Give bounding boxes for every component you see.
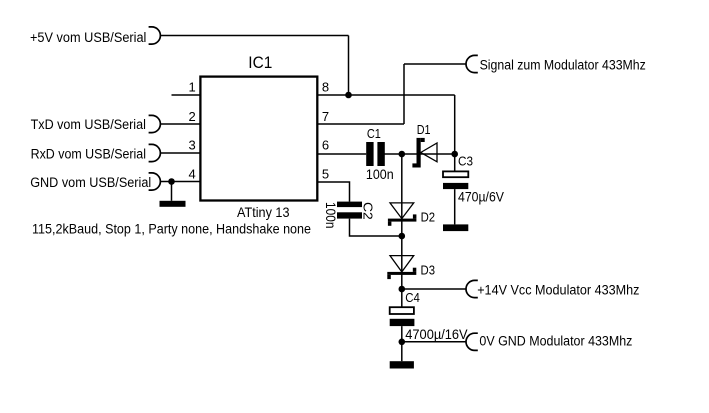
svg-text:C4: C4 [405, 290, 420, 305]
wire node C down to C4 [401, 289, 403, 307]
op IC1 box [200, 77, 317, 201]
wire vertical pin8 net down to node A [454, 95, 456, 154]
svg-text:GND vom USB/Serial: GND vom USB/Serial [30, 175, 151, 190]
wire C4 to ground [401, 326, 403, 361]
capacitor C1 [366, 142, 385, 166]
svg-text:Signal zum Modulator 433Mhz: Signal zum Modulator 433Mhz [480, 57, 646, 72]
svg-text:3: 3 [188, 138, 195, 153]
svg-text:RxD vom USB/Serial: RxD vom USB/Serial [31, 146, 146, 161]
diode D2 zener [388, 203, 417, 226]
wire +5V vertical down to pin 8 [348, 36, 350, 96]
svg-text:IC1: IC1 [248, 54, 272, 72]
wire signal horizontal [404, 63, 466, 65]
wire +5V horizontal [160, 35, 348, 37]
svg-text:D1: D1 [417, 122, 431, 137]
svg-text:0V GND Modulator 433Mhz: 0V GND Modulator 433Mhz [479, 334, 632, 349]
junction between D2 and D3 [399, 233, 406, 240]
connector +5V vom USB/Serial [30, 27, 160, 45]
wire C1 to D1 to node A [384, 153, 455, 155]
svg-text:4700µ/16V: 4700µ/16V [405, 326, 468, 342]
svg-text:5: 5 [322, 166, 329, 181]
junction on pin 4 net [168, 178, 175, 185]
svg-text:+14V Vcc Modulator 433Mhz: +14V Vcc Modulator 433Mhz [477, 283, 640, 298]
wire pin 7 [317, 123, 404, 125]
wire pin 1 stub [172, 94, 201, 96]
wire 0V horizontal [402, 341, 466, 343]
capacitor C4 polarized [390, 307, 415, 326]
svg-text:470µ/6V: 470µ/6V [458, 189, 505, 205]
svg-text:7: 7 [322, 109, 329, 124]
wire C2 bottom to junction [350, 219, 402, 236]
wire pin 4 ground drop [171, 182, 173, 201]
connector TxD vom USB/Serial [31, 115, 161, 132]
connector RxD vom USB/Serial [31, 144, 161, 161]
svg-text:6: 6 [322, 138, 329, 153]
connector Signal zum Modulator 433Mhz [466, 55, 646, 72]
junction node C at 14V [399, 286, 406, 293]
svg-text:100n: 100n [366, 166, 394, 182]
connector 0V GND Modulator 433Mhz [466, 333, 633, 350]
wire pin 5 [317, 182, 349, 202]
capacitor C2 [337, 202, 362, 219]
connector GND vom USB/Serial [30, 173, 160, 190]
connector +14V Vcc Modulator 433Mhz [466, 280, 640, 297]
svg-text:2: 2 [188, 109, 195, 124]
diode D3 zener [387, 256, 416, 280]
wire pin 8 horizontal [317, 94, 454, 96]
wire pin 4 [160, 181, 200, 183]
capacitor C3 polarized [443, 171, 468, 189]
svg-text:8: 8 [322, 79, 329, 94]
diode D1 zener [412, 138, 437, 168]
svg-text:1: 1 [188, 79, 195, 94]
wire node A down to C3 [454, 154, 456, 171]
svg-text:TxD vom USB/Serial: TxD vom USB/Serial [31, 117, 146, 132]
wire pin 6 [317, 153, 366, 155]
wire 14V horizontal [402, 288, 466, 290]
junction on pin 8 net [345, 92, 352, 99]
ground under C4 [390, 361, 414, 368]
svg-text:100n: 100n [323, 202, 339, 229]
svg-text:ATtiny 13: ATtiny 13 [237, 204, 290, 220]
svg-text:C3: C3 [458, 154, 473, 169]
wire pin 2 [160, 123, 200, 125]
svg-text:C1: C1 [367, 126, 381, 141]
wire pin 3 [160, 152, 200, 154]
wire main vertical node B to D2 D3 [401, 154, 403, 289]
junction node A [451, 151, 458, 158]
junction node D at 0V [399, 339, 406, 346]
ground under C3 [443, 224, 468, 231]
junction node B at C1 output [399, 151, 406, 158]
svg-text:D2: D2 [421, 210, 436, 225]
svg-text:C2: C2 [361, 202, 376, 220]
wire signal vertical to pin 7 [403, 64, 405, 124]
svg-text:4: 4 [188, 166, 195, 181]
svg-text:+5V vom USB/Serial: +5V vom USB/Serial [30, 30, 146, 45]
svg-text:D3: D3 [421, 263, 436, 278]
svg-text:115,2kBaud, Stop 1, Party none: 115,2kBaud, Stop 1, Party none, Handshak… [32, 222, 311, 237]
ground under pin 4 [160, 201, 186, 207]
wire C3 to ground [454, 189, 456, 224]
